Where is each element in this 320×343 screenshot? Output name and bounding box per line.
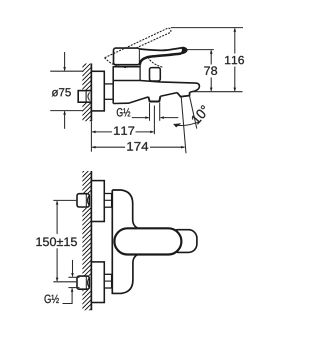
spout top edge and end face bbox=[113, 81, 199, 93]
dimension 78 label bbox=[204, 66, 217, 74]
bottom reference extension line bbox=[193, 91, 243, 93]
handle lever tip accent bbox=[181, 47, 187, 53]
dimension o75 label bbox=[52, 88, 71, 96]
wall flange (escutcheon, side view) bbox=[91, 71, 104, 111]
dimension o75 arrow top bbox=[64, 52, 66, 71]
top escutcheon plate bbox=[91, 181, 104, 222]
spout bottom edge bbox=[113, 92, 190, 104]
wall hatch lower section bbox=[82, 103, 91, 122]
dimension 150+-15 extension top bbox=[53, 199, 77, 201]
dimension 174 line bbox=[92, 146, 185, 148]
G1/2 witness lines at shower connection bbox=[150, 103, 160, 121]
in-wall G1/2 union nut bbox=[78, 91, 91, 103]
wall face line bottom view bbox=[90, 171, 92, 310]
top union nut behind wall bbox=[77, 194, 89, 207]
G1/2 label top view bbox=[117, 108, 130, 116]
handle cap bbox=[114, 48, 140, 65]
dimension 116 line bbox=[234, 28, 236, 91]
dimension 78 line bbox=[210, 50, 212, 91]
spout outlet bump bbox=[177, 92, 190, 97]
handle raised position (dashed) bbox=[105, 28, 171, 68]
bottom connection nub bbox=[104, 274, 111, 288]
shower connection centre witness line bbox=[153, 106, 155, 135]
handle lever (solid, lowered) bbox=[140, 48, 187, 65]
dimension 78 extension line bbox=[187, 49, 214, 51]
handle stadium (plan) bbox=[114, 228, 181, 254]
dimension o75 arrow bottom bbox=[64, 111, 66, 129]
dimension 150+-15 label bbox=[36, 237, 77, 246]
angle arc arrowhead bbox=[174, 123, 181, 127]
water stream right line bbox=[189, 96, 196, 129]
left witness line below wall bbox=[90, 121, 92, 152]
dimension 150+-15 extension bottom bbox=[53, 281, 77, 283]
angle dimension arc bbox=[174, 121, 201, 125]
wall face line bbox=[90, 64, 92, 122]
dimension o75 extension top bbox=[50, 70, 83, 72]
dimension 150+-15 line bbox=[56, 201, 58, 281]
bottom union nut behind wall bbox=[77, 276, 89, 289]
spout end cap (plan) bbox=[170, 230, 197, 253]
dimension 116 extension line top bbox=[171, 27, 243, 29]
dimension 117 label bbox=[114, 127, 134, 135]
shower hose connection under spout bbox=[148, 96, 160, 101]
faucet body box bbox=[113, 60, 141, 104]
dimension o75 extension bottom bbox=[50, 110, 83, 112]
wall hatch upper section bbox=[82, 64, 91, 91]
wall hatch strip top bbox=[82, 171, 91, 193]
G1/2 arrow up and leader bbox=[63, 288, 73, 303]
angle label 10deg bbox=[191, 105, 210, 125]
G1/2 arrows bbox=[132, 117, 179, 119]
diverter knob on spout bbox=[150, 68, 161, 81]
G1/2 witness lines bottom view bbox=[68, 277, 79, 287]
handle lever underside accent bbox=[140, 54, 181, 65]
G1/2 label bottom view bbox=[45, 295, 59, 303]
dimension 116 label bbox=[225, 56, 244, 64]
wall hatch strip middle bbox=[82, 208, 91, 276]
neck between flange and body bbox=[104, 84, 113, 99]
G1/2 arrow down bbox=[72, 260, 74, 277]
faucet body bar bbox=[112, 190, 137, 293]
wall hatch strip bottom bbox=[82, 290, 91, 311]
dimension 117 line bbox=[92, 131, 154, 133]
outlet witness / water stream left line bbox=[181, 97, 186, 154]
bottom escutcheon plate bbox=[91, 262, 104, 303]
dimension 174 label bbox=[127, 142, 148, 151]
top connection nub bbox=[104, 194, 111, 208]
